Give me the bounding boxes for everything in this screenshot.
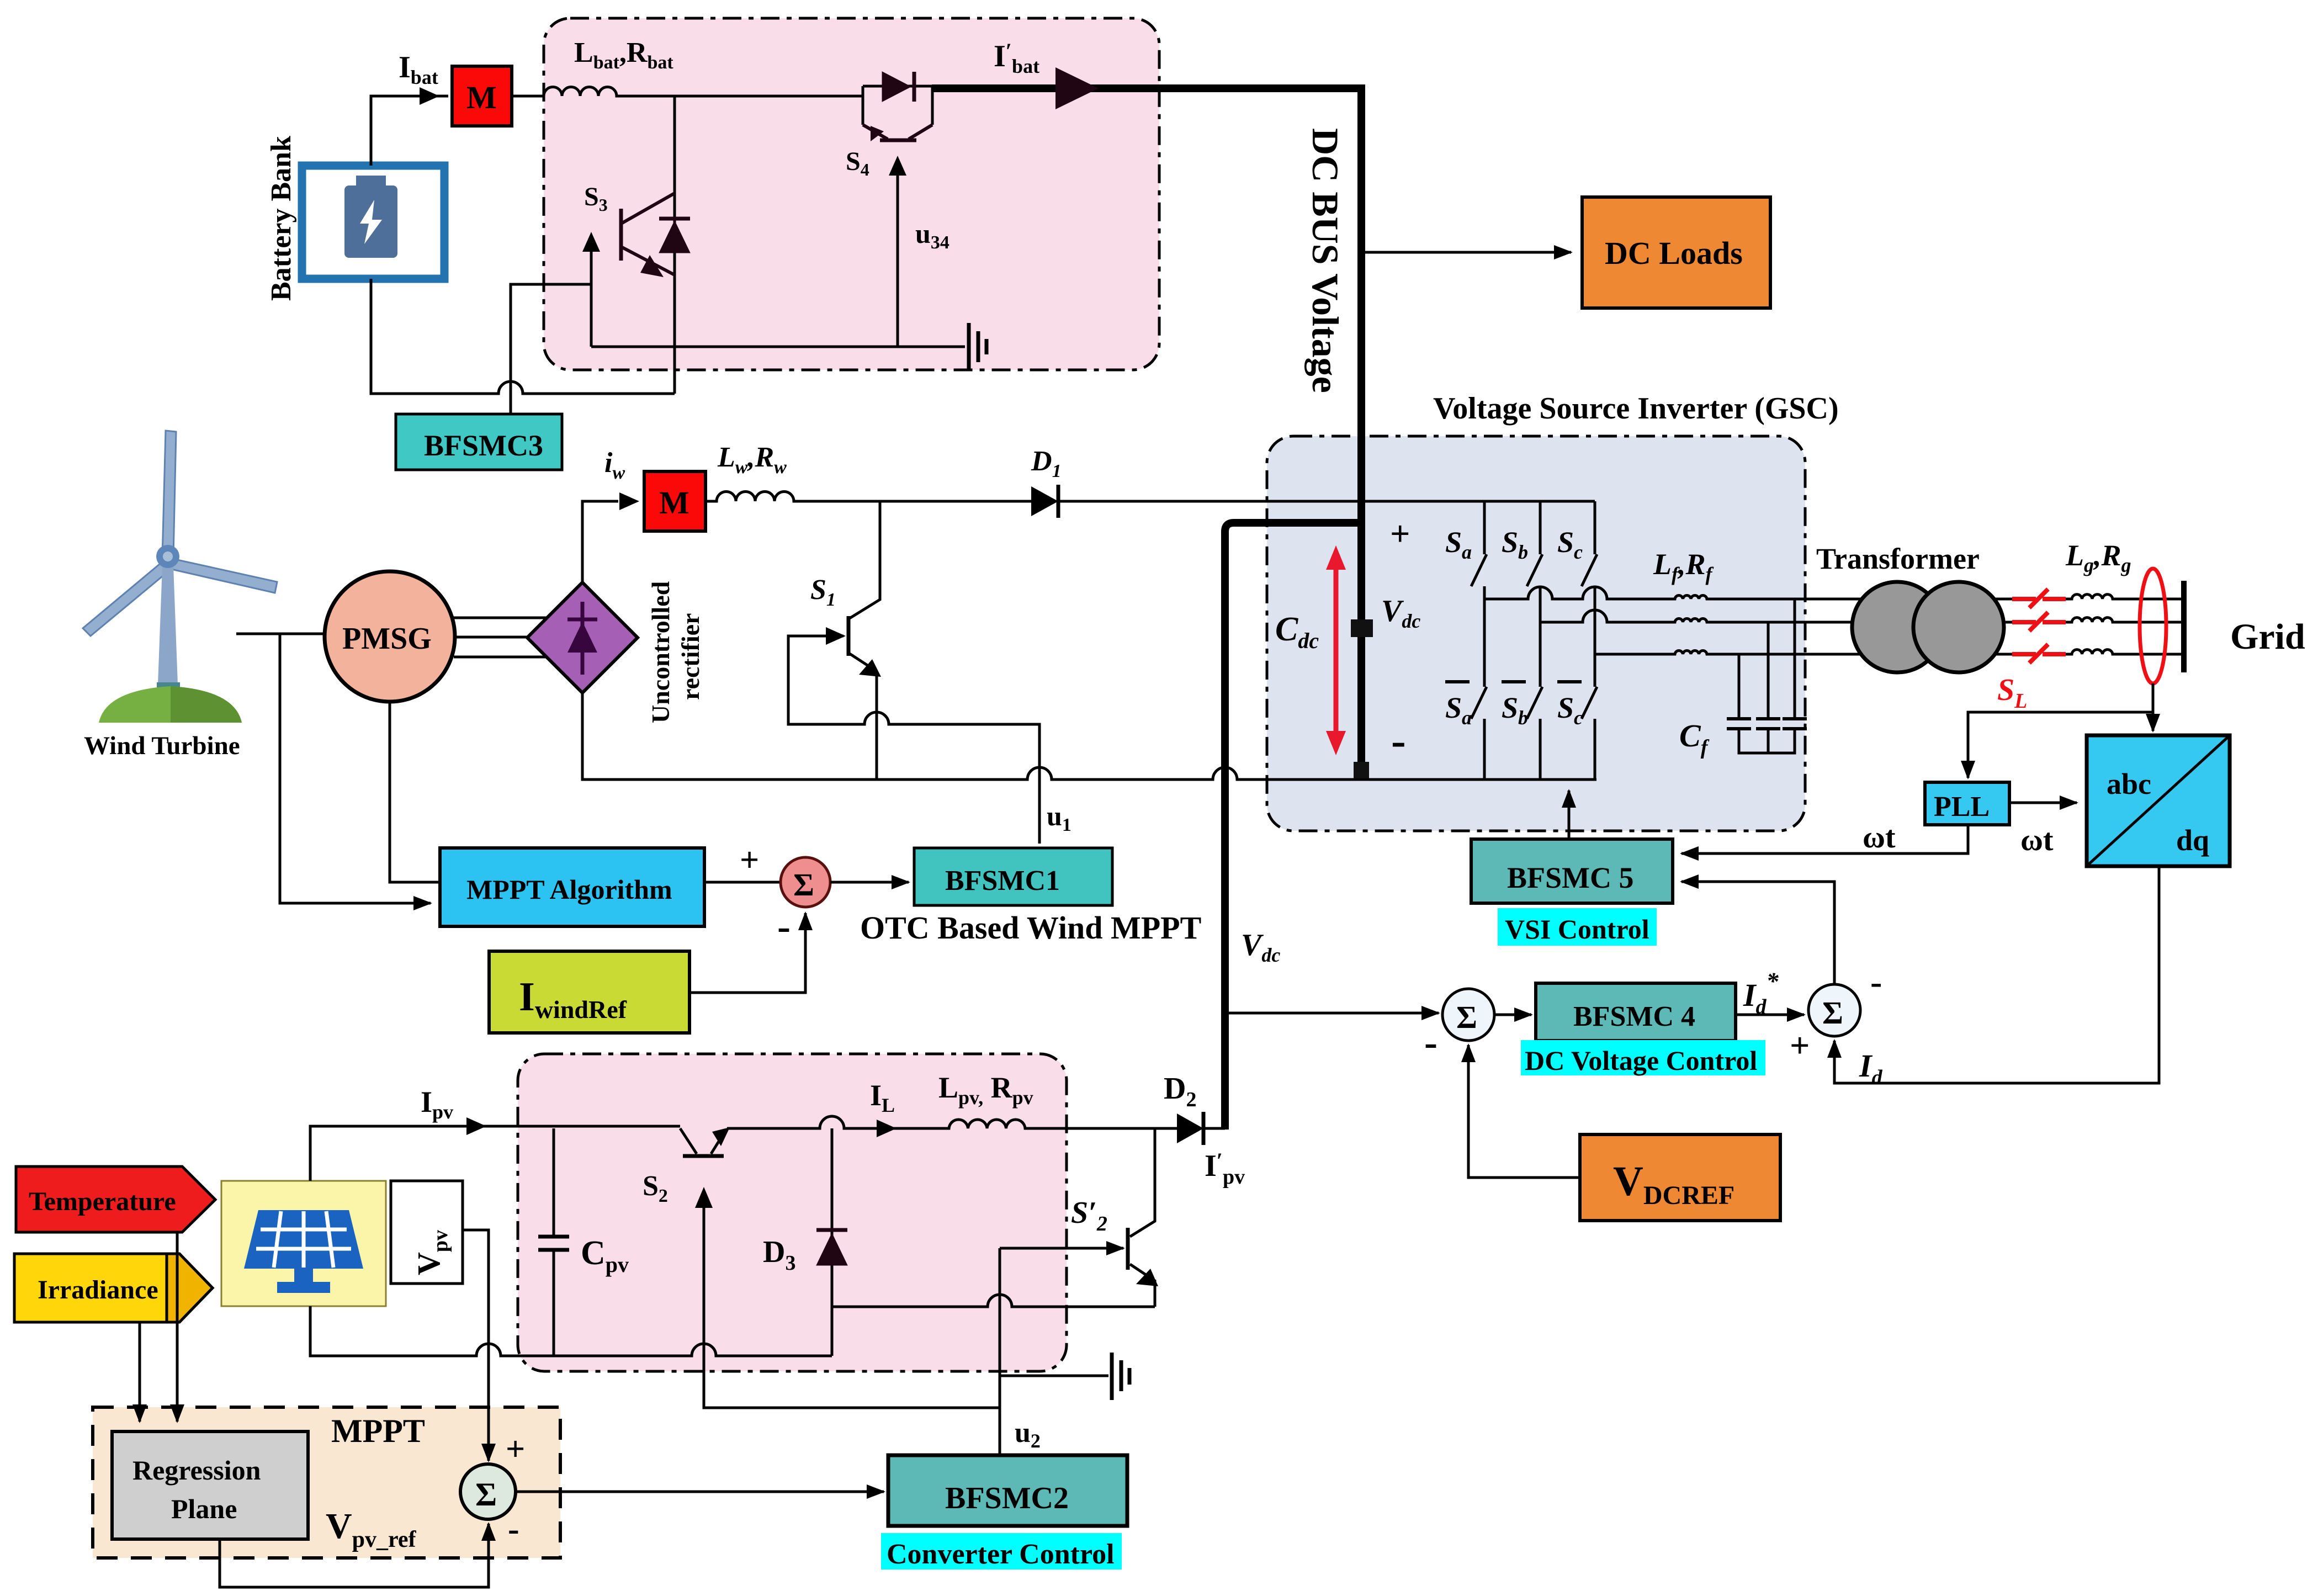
svg-text:abc: abc bbox=[2107, 767, 2151, 800]
diode of S4 bbox=[882, 72, 914, 102]
wire IwindRef to sum1 bbox=[689, 913, 805, 993]
VSI (GSC) dash-dot box bbox=[1267, 436, 1805, 831]
VDCREF box bbox=[1580, 1134, 1780, 1221]
svg-text:Irradiance: Irradiance bbox=[38, 1275, 158, 1305]
PV converter lower rail bbox=[832, 1295, 1155, 1307]
wire Vdc sense to sum2 bbox=[1225, 1012, 1439, 1015]
label Sa bar bbox=[1445, 682, 1472, 729]
measurement loop (red ellipse) bbox=[2140, 569, 2166, 683]
Temperature input bbox=[16, 1166, 215, 1232]
gate arrow S3 bbox=[590, 247, 593, 284]
arrow IL bbox=[877, 1120, 897, 1137]
svg-text:BFSMC2: BFSMC2 bbox=[945, 1481, 1069, 1515]
arrow I'bat bbox=[1055, 67, 1099, 109]
wire battery positive to M bbox=[371, 96, 448, 166]
inverter leg A bbox=[1471, 501, 1487, 780]
svg-text:dq: dq bbox=[2176, 824, 2209, 857]
svg-text:M: M bbox=[659, 485, 689, 521]
svg-text:Converter Control: Converter Control bbox=[887, 1539, 1115, 1570]
wire Ipv PV to converter bbox=[310, 1126, 680, 1181]
gate wire S3 from BFSMC3 bbox=[511, 284, 591, 414]
svg-text:PMSG: PMSG bbox=[342, 622, 432, 656]
transistor S'2 bbox=[1128, 1130, 1158, 1307]
svg-text:Wind Turbine: Wind Turbine bbox=[84, 731, 240, 760]
wind turbine icon bbox=[83, 431, 277, 723]
phase A wire with inductor Lf bbox=[1484, 587, 2012, 599]
wire BFSMC4 to sum3 bbox=[1736, 1014, 1804, 1016]
diode D2 bbox=[1177, 1112, 1225, 1145]
negative rail (rectifier to VSI) bbox=[582, 693, 1596, 780]
summing junction sum3 (Id) bbox=[1808, 984, 1860, 1036]
diode of S3 (antiparallel) bbox=[659, 219, 690, 253]
PV boost converter dash-dot box bbox=[518, 1054, 1067, 1371]
wire PLL to abc/dq bbox=[2009, 802, 2077, 804]
DC bus elbow from PV converter bbox=[1225, 523, 1361, 1130]
svg-text:+: + bbox=[1390, 514, 1410, 553]
wire PMSG to MPPT Algorithm bbox=[390, 702, 440, 882]
BFSMC 4 box bbox=[1536, 983, 1736, 1041]
svg-text:Uncontrolled: Uncontrolled bbox=[646, 581, 675, 723]
PV panel bbox=[221, 1181, 386, 1306]
voltmeter Vpv box bbox=[391, 1181, 463, 1284]
svg-text:BFSMC 4: BFSMC 4 bbox=[1573, 1001, 1695, 1032]
current sensor M (wind) bbox=[644, 471, 706, 531]
svg-text:Voltage Source Inverter (GSC): Voltage Source Inverter (GSC) bbox=[1433, 391, 1839, 426]
wire BFSMC5 to inverter bbox=[1568, 791, 1571, 839]
wire to ground (PV) bbox=[1000, 1375, 1108, 1377]
label VSI Control bbox=[1498, 908, 1657, 946]
inductor Lw then wire to D1 bbox=[706, 492, 1031, 502]
PLL box bbox=[1925, 782, 2009, 825]
wire sum1 to BFSMC1 bbox=[830, 881, 909, 884]
svg-text:ωt: ωt bbox=[1863, 820, 1896, 855]
wire sum3 output to BFSMC5 bbox=[1682, 882, 1834, 984]
diode D3 leg bbox=[831, 1128, 834, 1356]
battery buck-boost converter dash-dot box bbox=[544, 18, 1159, 370]
phase C wire with inductor Lf bbox=[1595, 651, 2012, 654]
svg-text:MPPT: MPPT bbox=[331, 1413, 425, 1449]
wire grid sense to abc/dq bbox=[2152, 683, 2155, 731]
wire D1 to VSI top rail bbox=[1058, 500, 1595, 503]
svg-text:M: M bbox=[466, 79, 497, 115]
svg-text:+: + bbox=[740, 841, 759, 879]
svg-text:-: - bbox=[1424, 1020, 1438, 1064]
svg-text:Grid: Grid bbox=[2230, 617, 2305, 657]
svg-text:Battery Bank: Battery Bank bbox=[266, 136, 297, 301]
uncontrolled rectifier bbox=[527, 582, 638, 693]
DC bus bottom nub bbox=[1354, 762, 1369, 778]
svg-text:-: - bbox=[1870, 962, 1882, 1001]
wire DC bus to DC Loads bbox=[1365, 251, 1571, 254]
Regression Plane box bbox=[112, 1431, 308, 1539]
transistor S4 bbox=[863, 125, 932, 141]
svg-text:+: + bbox=[506, 1430, 525, 1468]
IwindRef box bbox=[489, 951, 689, 1033]
MPPT dashed box bbox=[93, 1407, 560, 1558]
abc/dq transform box bbox=[2087, 735, 2230, 866]
node Vdc bbox=[1351, 619, 1373, 637]
wire Vpv sense to sum4 bbox=[463, 1230, 489, 1461]
wire turbine to PMSG bbox=[236, 633, 325, 635]
wire Irradiance to Regression Plane bbox=[139, 1322, 141, 1422]
gate wire S2 bbox=[704, 1203, 1000, 1408]
battery negative return wire bbox=[371, 279, 675, 394]
summing junction sum4 (PV) bbox=[460, 1464, 516, 1519]
wire sum4 to BFSMC2 bbox=[516, 1491, 884, 1493]
current sensor M (battery) bbox=[452, 66, 512, 126]
switch SL phase C (red) bbox=[2012, 644, 2066, 663]
transistor S1 bbox=[848, 501, 881, 780]
inductor Lbat bbox=[512, 87, 863, 97]
grid inductor Lg phase B bbox=[2066, 618, 2182, 622]
phase B wire with inductor Lf bbox=[1540, 610, 2012, 622]
svg-text:BFSMC3: BFSMC3 bbox=[424, 429, 543, 462]
transistor S2 (series in PV rail) bbox=[680, 1127, 730, 1156]
Irradiance input bbox=[14, 1254, 213, 1322]
svg-text:VSI Control: VSI Control bbox=[1505, 914, 1649, 945]
wire rectifier to M (wind) bbox=[582, 501, 618, 582]
svg-text:-: - bbox=[1391, 717, 1406, 765]
BFSMC3 box bbox=[396, 414, 562, 470]
svg-text:BFSMC1: BFSMC1 bbox=[945, 865, 1060, 897]
wire PV negative rail bbox=[310, 1306, 832, 1356]
wire u2 riser bbox=[999, 1248, 1001, 1455]
svg-text:BFSMC 5: BFSMC 5 bbox=[1507, 861, 1634, 894]
wire VDCREF to sum2 bbox=[1468, 1045, 1580, 1178]
filter capacitors Cf bbox=[1727, 599, 1807, 753]
svg-text:Σ: Σ bbox=[1456, 999, 1477, 1035]
wire Id feedback from abc/dq to sum3 bbox=[1834, 866, 2159, 1083]
gate wire u34 bbox=[897, 171, 899, 347]
ground (battery converter) bbox=[969, 323, 986, 370]
label DC Voltage Control bbox=[1521, 1040, 1765, 1076]
svg-text:Transformer: Transformer bbox=[1816, 542, 1980, 575]
inverter leg B bbox=[1527, 501, 1542, 780]
svg-text:DC Voltage Control: DC Voltage Control bbox=[1525, 1045, 1757, 1076]
BFSMC2 box bbox=[888, 1455, 1127, 1526]
summing junction sum1 (wind) bbox=[781, 857, 830, 907]
switch SL phase B (red) bbox=[2012, 612, 2066, 631]
wire PLL wt to BFSMC5 bbox=[1682, 825, 1968, 853]
BFSMC1 box bbox=[914, 848, 1112, 905]
svg-text:MPPT Algorithm: MPPT Algorithm bbox=[466, 874, 672, 905]
switch SL phase A (red) bbox=[2012, 589, 2066, 608]
capacitor Cdc red arrow bbox=[1326, 545, 1346, 755]
converter bottom rail bbox=[591, 346, 965, 348]
PMSG generator bbox=[325, 571, 455, 702]
MPPT Algorithm box bbox=[440, 848, 704, 926]
svg-text:Regression: Regression bbox=[132, 1455, 261, 1486]
transformer bbox=[1852, 582, 2004, 672]
grid bus bar bbox=[2181, 581, 2187, 672]
inverter leg C bbox=[1582, 501, 1597, 780]
svg-text:DC Loads: DC Loads bbox=[1605, 235, 1743, 271]
gate wire S'2 bbox=[1000, 1247, 1123, 1250]
3-phase wires PMSG to rectifier bbox=[454, 617, 546, 619]
PV rail S2 to D2 with hop and inductor Lpv bbox=[727, 1116, 1177, 1128]
grid inductor Lg phase A bbox=[2066, 595, 2182, 599]
svg-text:ωt: ωt bbox=[2020, 823, 2054, 857]
wire MPPT Algorithm to sum1 bbox=[704, 881, 779, 884]
svg-text:Plane: Plane bbox=[171, 1493, 237, 1524]
DC bus thick line bbox=[932, 88, 1361, 771]
wire turbine tap to MPPT Algorithm bbox=[280, 634, 431, 903]
svg-text:Σ: Σ bbox=[475, 1476, 497, 1513]
svg-text:+: + bbox=[1790, 1026, 1810, 1065]
wire Temperature to Regression Plane bbox=[176, 1232, 179, 1422]
node vertical S3 leg bbox=[673, 96, 676, 394]
svg-text:OTC Based Wind MPPT: OTC Based Wind MPPT bbox=[860, 910, 1201, 946]
svg-text:PLL: PLL bbox=[1934, 791, 1990, 823]
svg-text:Σ: Σ bbox=[1822, 995, 1843, 1031]
wire grid sense to PLL bbox=[1968, 712, 2153, 778]
svg-text:-: - bbox=[508, 1510, 519, 1548]
transistor S4 loop bbox=[863, 86, 932, 125]
BFSMC 5 box bbox=[1471, 839, 1673, 903]
summing junction sum2 (DC voltage) bbox=[1442, 989, 1494, 1041]
battery bank bbox=[302, 166, 444, 279]
transistor S3 bbox=[621, 193, 675, 277]
capacitor Cpv bbox=[538, 1128, 569, 1356]
ground (PV converter) bbox=[1112, 1353, 1129, 1400]
label Converter Control bbox=[881, 1533, 1122, 1570]
arrow Ibat bbox=[420, 87, 439, 105]
svg-text:Lf,Rf: Lf,Rf bbox=[1653, 548, 1714, 585]
DC Loads box bbox=[1582, 197, 1770, 308]
label Sc bar bbox=[1557, 682, 1583, 729]
wire sum2 to BFSMC4 bbox=[1494, 1014, 1531, 1016]
diode D1 bbox=[1031, 485, 1058, 518]
label Sb bar bbox=[1502, 682, 1528, 729]
svg-text:-: - bbox=[777, 904, 791, 948]
svg-text:DC BUS Voltage: DC BUS Voltage bbox=[1304, 128, 1346, 393]
svg-text:Temperature: Temperature bbox=[29, 1187, 176, 1216]
svg-text:Σ: Σ bbox=[793, 867, 814, 903]
wire Regression Plane to sum4 bbox=[220, 1524, 489, 1587]
svg-text:rectifier: rectifier bbox=[676, 613, 704, 700]
grid inductor Lg phase C bbox=[2066, 650, 2182, 654]
gate wire S1 (u1 loop) bbox=[788, 636, 1039, 844]
